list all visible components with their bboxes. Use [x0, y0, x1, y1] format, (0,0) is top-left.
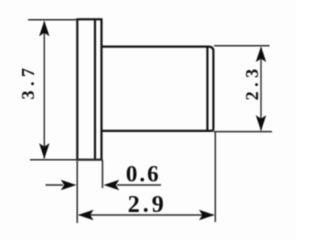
- arrowhead 2.9 left: [78, 210, 94, 220]
- extension line right-top: [214, 45, 270, 47]
- flange inner line: [94, 19, 96, 159]
- svg-text:0.6: 0.6: [126, 162, 161, 187]
- body outline (cylinder): [102, 47, 214, 131]
- extension line bottom-left (flange bottom extended): [30, 159, 103, 161]
- extension line right-bottom: [214, 131, 273, 133]
- extension line top-left: [28, 19, 77, 21]
- extension line below flange right: [102, 161, 104, 189]
- arrowhead 3.7 up: [39, 21, 49, 37]
- extension line below body end: [214, 133, 216, 223]
- svg-text:2.9: 2.9: [128, 192, 167, 218]
- flange outline (part head rectangle): [77, 19, 101, 159]
- arrowhead 2.3 down: [256, 115, 266, 131]
- arrowhead 2.9 right: [199, 210, 215, 220]
- dimension 0.6 right tail: [117, 184, 161, 186]
- extension line below flange left: [76, 161, 78, 223]
- arrowhead 0.6 right-pointing: [61, 180, 77, 190]
- dimension 0.6 left tail: [46, 184, 64, 186]
- body end inner line: [206, 47, 208, 130]
- dimension line 2.3: [260, 48, 262, 131]
- dimension line 3.7: [43, 22, 45, 159]
- arrowhead 2.3 up: [256, 46, 266, 62]
- arrowhead 0.6 left-pointing: [104, 180, 120, 190]
- dimension line 2.9: [79, 214, 214, 216]
- arrowhead 3.7 down: [39, 143, 49, 159]
- svg-text:3.7: 3.7: [18, 64, 38, 100]
- svg-text:2.3: 2.3: [242, 64, 262, 100]
